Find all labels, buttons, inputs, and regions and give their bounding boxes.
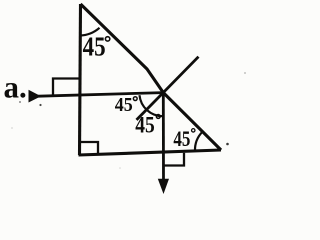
svg-text:45: 45 — [173, 126, 190, 151]
bottom-left right-angle marker — [80, 142, 98, 155]
speck below label a — [19, 101, 21, 103]
reflected ray — [162, 93, 165, 181]
apex angle arc — [80, 28, 100, 36]
prism total internal reflection diagram — [0, 0, 260, 199]
incident ray — [34, 93, 163, 97]
incident ray arrowhead — [29, 90, 42, 103]
speck below arrow — [39, 104, 41, 106]
prism hypotenuse — [81, 4, 222, 150]
normal at hypotenuse — [137, 57, 199, 120]
speck near right vertex — [226, 143, 229, 146]
reflected ray arrowhead — [158, 179, 169, 194]
prism bottom face — [79, 150, 222, 155]
bottom-right angle arc — [195, 132, 203, 151]
prism left face — [80, 4, 81, 155]
faint speck left — [11, 127, 13, 129]
svg-text:45: 45 — [135, 113, 155, 138]
faint speck lower middle — [119, 167, 121, 169]
faint speck upper right — [244, 72, 246, 74]
svg-text:a.: a. — [4, 70, 27, 105]
incidence/reflection arc — [140, 95, 163, 116]
entry right-angle marker — [53, 79, 80, 96]
svg-text:45: 45 — [83, 32, 106, 62]
exit right-angle marker — [164, 153, 184, 166]
svg-text:45: 45 — [115, 94, 133, 116]
